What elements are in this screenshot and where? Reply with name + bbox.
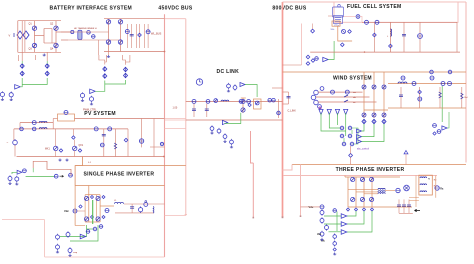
- voltage sensor V4: [418, 97, 422, 101]
- current sensor PV7: [124, 138, 128, 142]
- diode D8: [306, 55, 310, 59]
- wire dc green vert: [225, 113, 241, 124]
- wire fc drop vertical: [301, 24, 303, 66]
- diode D5: [248, 103, 251, 106]
- diode D1: [106, 20, 110, 24]
- ground Vdcr1: [223, 140, 226, 142]
- wire spi bottom rail: [85, 221, 100, 223]
- gate circle S2: [93, 227, 97, 231]
- wire ring to bus link: [283, 165, 293, 171]
- diode D4: [118, 40, 122, 44]
- wire boost rail: [388, 83, 466, 85]
- control aux circles: [333, 209, 337, 213]
- wire fc right drop: [456, 22, 458, 52]
- source Vr1: [333, 234, 337, 240]
- switch S2: [214, 99, 218, 103]
- wire 800VDC ring right vertical: [465, 2, 467, 163]
- svg-text:C_LINK: C_LINK: [288, 110, 297, 113]
- ground Vg3: [81, 99, 84, 101]
- svg-text:450VDC BUS: 450VDC BUS: [158, 6, 192, 12]
- node mid line end: [253, 217, 255, 219]
- comparator U1: [15, 85, 21, 89]
- source Vr2: [333, 241, 337, 247]
- wire pv mid links: [55, 129, 57, 146]
- source Vref2: [15, 176, 19, 182]
- inductor Lc: [378, 193, 385, 194]
- wire rectifier top rail: [104, 18, 165, 20]
- clock CLK1: [196, 79, 202, 85]
- wire boost drop1: [400, 87, 402, 108]
- node DC-link rail end tick: [185, 214, 187, 216]
- comparator U4: [323, 57, 328, 61]
- wire wind green h: [344, 128, 358, 144]
- element R1: [439, 87, 441, 108]
- transistor QW1: [362, 85, 366, 89]
- comparator UB: [341, 222, 347, 226]
- diode D11: [348, 30, 352, 34]
- wire fc drop link: [283, 64, 302, 66]
- arrow black: [415, 209, 421, 211]
- wire tpi to load: [385, 190, 395, 192]
- diode D13: [389, 44, 393, 48]
- wire ref stub: [32, 168, 34, 172]
- gate block W2: [348, 126, 352, 130]
- capacitor C6: [103, 129, 105, 157]
- current sensor TB: [435, 186, 439, 190]
- current sensor PV4: [32, 127, 36, 131]
- diode DX1: [59, 149, 62, 152]
- wire pv top out: [75, 118, 165, 120]
- wire spi top rail: [85, 194, 100, 196]
- current sensor Wb: [345, 90, 349, 94]
- junction JB: [355, 208, 358, 211]
- ground Vref2: [15, 183, 18, 185]
- pv sensor: [64, 111, 68, 115]
- gate driver G2: [45, 64, 49, 68]
- fuel cell label box: [334, 2, 458, 22]
- svg-text:WIND SYSTEM: WIND SYSTEM: [333, 75, 372, 81]
- svg-text:Vab: Vab: [317, 233, 322, 236]
- wire spi load top: [124, 203, 165, 205]
- ground rectifier: [107, 55, 110, 57]
- transistor QW5: [372, 113, 376, 117]
- inductor L4: [398, 82, 407, 84]
- wire vdc link: [301, 206, 321, 208]
- svg-text:BATTERY INTERFACE SYSTEM: BATTERY INTERFACE SYSTEM: [50, 5, 133, 11]
- diode DS1: [91, 196, 94, 199]
- junction JC: [363, 208, 366, 211]
- wire filter cap legs: [126, 24, 128, 48]
- wire rectifier bottom rail: [104, 51, 165, 53]
- source Vs1: [56, 234, 60, 240]
- wire tpi feed: [344, 176, 346, 178]
- source Vdcr2: [230, 139, 234, 145]
- switch S6: [315, 57, 319, 61]
- gate block W1: [340, 126, 344, 130]
- node fc junction: [364, 51, 366, 53]
- current sensor FCd: [311, 29, 315, 33]
- scaler T2: [327, 109, 331, 114]
- wire rectifier legs wind: [363, 72, 365, 118]
- inductor L5b: [39, 128, 47, 129]
- wire wind phase c: [318, 101, 377, 103]
- meter WG1: [433, 124, 437, 128]
- wire spi output: [100, 205, 114, 207]
- gate circle S1: [86, 230, 90, 234]
- comparator UW4: [442, 126, 447, 130]
- wire bus link 147: [150, 146, 165, 148]
- wire fc green riser: [328, 41, 334, 60]
- wire fc branch: [373, 22, 375, 52]
- source Vg1: [0, 91, 4, 98]
- inductor L1: [221, 100, 229, 101]
- ground Vs3: [56, 251, 59, 253]
- current sensor FCo: [356, 15, 360, 19]
- current sensor TA: [396, 188, 400, 192]
- load box: [419, 175, 432, 195]
- wire dc-link lower connector: [165, 128, 186, 130]
- diode D12: [419, 87, 421, 108]
- diode DS3: [91, 216, 94, 219]
- ground pv: [58, 159, 61, 161]
- wire 800VDC ring top: [283, 1, 467, 3]
- current sensor BW1: [401, 76, 405, 80]
- capacitor C9: [131, 204, 133, 213]
- capacitor C5: [399, 95, 403, 96]
- inductor load a: [420, 177, 427, 178]
- wire pv top row: [20, 122, 53, 124]
- transistor QW6: [382, 113, 386, 117]
- meter WG2: [437, 130, 441, 134]
- capacitor C2: [193, 104, 195, 118]
- transistor QA1: [351, 177, 355, 181]
- current sensor FC-B: [375, 20, 379, 24]
- wire 800VDC bus vertical: [282, 2, 284, 217]
- wire lower mid vertical: [252, 163, 254, 218]
- svg-text:MX1: MX1: [45, 149, 50, 151]
- transistor QW2: [372, 85, 376, 89]
- wire bridge mid links: [35, 35, 45, 37]
- gate driver GW1: [362, 119, 366, 123]
- svg-text:PWM_CTRL: PWM_CTRL: [83, 109, 97, 112]
- wire 450VDC bus vertical: [164, 14, 166, 257]
- wire load top link: [435, 176, 437, 198]
- wire dc top green: [245, 85, 257, 98]
- meter S4: [268, 98, 272, 102]
- wire gate red stubs A: [17, 55, 19, 61]
- switch S3: [255, 101, 259, 105]
- wire dc-link rail link: [165, 119, 186, 121]
- wind machine PMSG: [311, 87, 324, 109]
- svg-text:DC LINK: DC LINK: [217, 69, 240, 75]
- wire vdc drop: [300, 165, 302, 217]
- gate ref: [69, 173, 73, 177]
- wire load returns: [409, 197, 419, 199]
- comparator U3: [222, 120, 227, 124]
- meter DC2: [247, 100, 251, 104]
- coil spi: [152, 207, 155, 214]
- wire dc-link bottom rail: [186, 119, 283, 121]
- diode D10: [306, 62, 310, 66]
- source Vg2: [9, 92, 13, 99]
- diode D9: [311, 59, 315, 63]
- gate block W5: [342, 142, 346, 146]
- svg-text:~: ~: [7, 141, 9, 145]
- voltage sensor V2: [146, 30, 150, 34]
- switch MX1: [54, 146, 58, 150]
- resistor R2: [114, 129, 116, 157]
- transistor Q5: [242, 98, 244, 113]
- wire transformer bottom: [68, 39, 96, 41]
- meter PVm: [100, 143, 104, 147]
- current sensor FCf: [373, 33, 377, 37]
- gate driver GW2: [372, 119, 376, 123]
- pv source: [13, 139, 18, 146]
- meter rail W1: [430, 70, 434, 74]
- wire spi bottom run: [45, 256, 165, 258]
- wire boost bottom: [388, 107, 466, 109]
- capacitor bank tpi: [398, 199, 400, 213]
- diode D3: [106, 40, 110, 44]
- wire bridge bottom rail: [18, 51, 61, 53]
- inductor L6: [115, 202, 124, 204]
- wire ref feed jog: [33, 161, 71, 175]
- transistor QB2: [360, 197, 364, 201]
- wire gate red stubs B: [99, 55, 130, 65]
- wire boost gate green: [441, 86, 443, 122]
- meter bus 147: [160, 142, 163, 145]
- voltage sensor V5: [141, 119, 143, 148]
- ground bridge: [43, 54, 46, 56]
- wire tpi bottom rail: [348, 206, 412, 208]
- voltage sensor Vdc1: [192, 99, 196, 103]
- ground Vr2: [333, 253, 336, 255]
- ground Vt1: [227, 90, 230, 92]
- current sensor BW4: [441, 82, 445, 86]
- diode D2: [118, 20, 122, 24]
- switch Swb: [344, 95, 348, 97]
- current sensor PV1: [32, 121, 36, 125]
- source Vt1: [227, 83, 231, 89]
- resistor Rload: [461, 87, 463, 108]
- node pv junction: [163, 156, 165, 158]
- current sensor PV6: [108, 127, 112, 131]
- svg-text:abc_control: abc_control: [357, 148, 369, 151]
- wire spi top link: [75, 185, 164, 187]
- ground Vg1: [1, 98, 4, 100]
- wire fc output rail: [362, 21, 457, 23]
- current sensor primary: [71, 30, 74, 33]
- transistor QS3: [84, 217, 88, 221]
- transformer T1: [78, 30, 82, 39]
- wire battery rails: [17, 21, 19, 53]
- svg-text:SINGLE PHASE INVERTER: SINGLE PHASE INVERTER: [84, 171, 155, 177]
- wire fc bottom rail: [310, 51, 460, 53]
- ground Vdcr2: [230, 146, 233, 148]
- wire boost gate green2: [447, 112, 449, 128]
- gate block W6: [350, 142, 354, 146]
- source Vs3: [56, 244, 60, 250]
- inductor La: [378, 188, 385, 189]
- wire tpi phase a: [348, 189, 378, 191]
- current sensor ref: [54, 174, 58, 178]
- node 800VDC bus end: [282, 216, 284, 218]
- wire dc stub2: [272, 87, 283, 89]
- comparator UC: [341, 230, 347, 234]
- source sine D: [320, 231, 324, 237]
- wire fc out2: [360, 17, 362, 23]
- current sensor secondary: [87, 31, 91, 35]
- ground Vs4: [68, 254, 71, 256]
- device tri marker: [404, 151, 408, 154]
- ground Vc1: [210, 132, 213, 134]
- wire wind bottom rail: [292, 164, 466, 166]
- transistor QS2: [96, 196, 100, 200]
- transistor QC2: [370, 197, 374, 201]
- component box DC: [254, 99, 262, 109]
- comparator Uref: [17, 170, 22, 174]
- wire bridge output: [56, 31, 71, 33]
- wire lower mid jog: [251, 131, 254, 163]
- current sensor Wa: [331, 90, 335, 94]
- transistor QS4: [96, 217, 100, 221]
- voltage sensor V1: [125, 30, 129, 34]
- scaler T3: [335, 109, 339, 114]
- node vdc drop end: [300, 215, 302, 217]
- transistor QC1: [370, 177, 374, 181]
- comparator U6: [240, 83, 245, 87]
- wire H-bridge legs: [34, 21, 36, 53]
- capacitor C_LINK: [288, 92, 290, 104]
- svg-text:PV SYSTEM: PV SYSTEM: [84, 111, 116, 117]
- transistor QB1: [360, 177, 364, 181]
- wire tpi top rail: [345, 176, 400, 178]
- wire cap bank bottom: [399, 212, 413, 214]
- wire wind green drops: [321, 113, 346, 136]
- wire dc-link top rail: [186, 100, 283, 102]
- wire spi left drop: [2, 219, 45, 221]
- wire pv cap leg: [127, 129, 129, 157]
- diode DPV: [72, 136, 75, 139]
- wire wind sensor drop: [350, 146, 352, 154]
- wire transformer to rectifier: [61, 31, 109, 33]
- wire three-phase feed rail: [284, 175, 438, 177]
- meter S1: [206, 100, 210, 104]
- wire tri marker stem: [405, 154, 407, 165]
- meter spi: [144, 201, 148, 207]
- wire pv second row: [14, 128, 128, 130]
- fuel cell stack FC1: [333, 5, 344, 24]
- current sensor Wd: [349, 154, 353, 158]
- meter S5: [277, 111, 281, 115]
- transistor Q4: [54, 43, 58, 47]
- wire wind top rail: [283, 71, 467, 73]
- source Vg3: [80, 92, 84, 99]
- wire bus top connector: [165, 18, 186, 20]
- wire gate stems A: [21, 61, 23, 64]
- diode QX1d: [78, 149, 81, 152]
- source Vc2: [217, 128, 221, 134]
- wire gate green A: [20, 78, 47, 87]
- svg-text:Vdc: Vdc: [64, 209, 69, 213]
- wire wind gate greens: [362, 124, 385, 142]
- source sine C: [325, 224, 329, 230]
- wire pv row join: [52, 119, 54, 129]
- wire spi feed ext: [74, 186, 76, 226]
- current sensor PV5: [94, 127, 98, 131]
- wire spi legs: [84, 195, 86, 222]
- wire wind phase b: [316, 96, 370, 98]
- capacitor C3: [206, 104, 208, 118]
- scaler T4: [344, 109, 348, 114]
- wire fc stack in: [328, 15, 333, 17]
- wire gate green B: [95, 80, 125, 91]
- svg-text:FUEL CELL SYSTEM: FUEL CELL SYSTEM: [347, 4, 402, 10]
- comparator U2: [90, 89, 96, 93]
- meter spi out: [105, 209, 109, 213]
- wire right vert dc: [278, 99, 280, 118]
- comparator UW3: [357, 140, 362, 144]
- wire pv left stub: [19, 123, 21, 129]
- wire ref green: [12, 172, 54, 176]
- capacitor C4: [403, 22, 405, 52]
- wire half-bridge top: [241, 97, 246, 99]
- source Vref1: [8, 175, 12, 181]
- transistor Q2: [54, 26, 58, 30]
- inductor load b: [420, 184, 427, 185]
- pv panel icon: [58, 114, 75, 121]
- ground Vref1: [8, 182, 11, 184]
- wire tpi gate greens: [324, 211, 372, 232]
- transistor Q3: [32, 43, 36, 47]
- wire fc orange path: [338, 26, 352, 41]
- node bus junction: [164, 51, 166, 53]
- source Vg4: [89, 96, 93, 103]
- current sensor A1: [138, 33, 142, 37]
- transistor Q6: [241, 108, 245, 112]
- current sensor FCe: [341, 43, 345, 47]
- wire spi green inner: [92, 200, 94, 224]
- current sensor secondary2: [92, 35, 96, 39]
- capacitor C1 plates: [130, 35, 134, 36]
- meter DC1: [239, 100, 243, 104]
- current sensor WG: [433, 132, 436, 135]
- ground Vg4: [90, 103, 93, 105]
- svg-text:THREE PHASE INVERTER: THREE PHASE INVERTER: [336, 167, 405, 173]
- current sensor Vr: [333, 248, 336, 251]
- gate driver G4: [124, 67, 128, 71]
- wire tpi phase c: [364, 193, 378, 195]
- current sensor BW3: [430, 76, 434, 80]
- diode DS2: [102, 196, 105, 199]
- comparator US1: [80, 234, 86, 238]
- comparator UA: [341, 214, 347, 218]
- wire wind bridge bottom: [364, 109, 388, 111]
- wire pv bus link: [165, 118, 186, 120]
- svg-text:V: V: [9, 34, 11, 38]
- svg-text:1.00: 1.00: [173, 107, 178, 110]
- transistor QW3: [382, 85, 386, 89]
- source Vt2: [233, 84, 237, 90]
- wire load left drop: [415, 176, 417, 208]
- source Vc1: [210, 125, 214, 131]
- wire spi gate greens: [60, 225, 98, 241]
- ground Vr1: [320, 238, 323, 240]
- transistor QS1: [84, 196, 88, 200]
- wire wind phase a: [318, 91, 363, 93]
- wire bridge top rail: [18, 20, 61, 22]
- current sensor BW2: [412, 82, 416, 86]
